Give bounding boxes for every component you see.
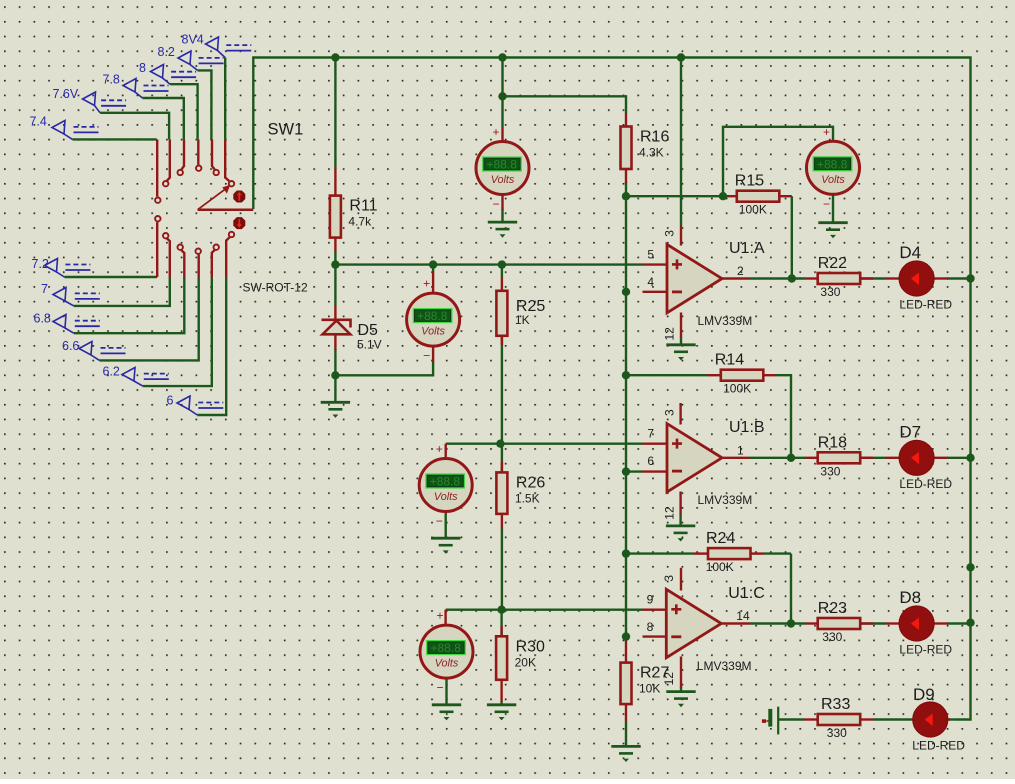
resistor R22: [818, 255, 861, 299]
wire: R16 bottom to ladder junction: [625, 182, 627, 196]
svg-text:+88.8: +88.8: [817, 157, 848, 171]
resistor R27: [621, 663, 670, 705]
svg-text:U1:B: U1:B: [729, 419, 765, 436]
wire: 8 run: [170, 84, 198, 139]
svg-text:R23: R23: [818, 600, 847, 617]
ground below D5/V2: [321, 402, 350, 418]
wire: 7.8 run: [143, 98, 184, 139]
LED D8 pins: [886, 622, 900, 624]
resistor R27 pins: [625, 637, 627, 663]
wire: U1:C out to D8: [750, 622, 806, 624]
svg-text:+: +: [823, 125, 830, 139]
wire: rail to R16 top elbow: [503, 96, 627, 113]
svg-text:6.2: 6.2: [103, 365, 120, 379]
resistor R24: [706, 530, 751, 574]
svg-text:Volts: Volts: [491, 174, 515, 186]
wire: ladder vertical rail x=626: [625, 196, 627, 636]
svg-text:7.4: 7.4: [30, 115, 47, 129]
svg-text:6.6: 6.6: [62, 339, 79, 353]
svg-text:U1:C: U1:C: [728, 585, 764, 602]
LED D7: [899, 423, 952, 491]
svg-text:330: 330: [820, 285, 840, 299]
wire: 6 run: [197, 277, 226, 415]
wire: 6.8 run: [74, 277, 185, 333]
wire: V4 + stub: [444, 610, 446, 624]
svg-text:+88.8: +88.8: [430, 475, 461, 489]
svg-text:100K: 100K: [723, 382, 751, 396]
voltmeter V4: [420, 609, 473, 695]
svg-text:D9: D9: [913, 685, 935, 704]
wire: U1:B pin12 to gnd: [679, 514, 681, 526]
resistor R30 pins: [500, 626, 502, 637]
resistor R16 pins: [625, 113, 627, 127]
svg-text:9: 9: [647, 592, 654, 606]
voltmeter pins V3: [445, 497, 447, 513]
op-amp U1:A pins: [643, 263, 668, 265]
svg-text:−: −: [423, 349, 430, 363]
svg-text:12: 12: [663, 327, 677, 341]
resistor R15 pins: [723, 195, 737, 197]
wire: U1:A out to D4: [750, 277, 806, 279]
svg-text:R18: R18: [818, 434, 847, 451]
svg-text:4.7k: 4.7k: [348, 215, 372, 229]
svg-text:D7: D7: [899, 423, 921, 442]
resistor R23: [818, 600, 861, 644]
svg-text:−: −: [437, 681, 444, 695]
wire: V2 - elbow to gnd junction: [335, 361, 433, 375]
zener diode D5: [322, 306, 382, 352]
svg-text:330: 330: [822, 630, 842, 644]
wire: R26 bottom down to R30 junction: [501, 528, 503, 610]
wire: 7.2 run: [64, 276, 157, 278]
resistor R11 pins: [334, 168, 336, 196]
svg-text:1.5K: 1.5K: [515, 491, 540, 505]
ground below U1:A: [666, 345, 695, 361]
svg-text:12: 12: [663, 506, 677, 520]
wire: battery to R33: [779, 718, 803, 720]
wire: V1 - to gnd: [501, 209, 503, 222]
svg-text:8: 8: [647, 620, 654, 634]
resistor R23 pins: [805, 622, 818, 624]
svg-text:+: +: [493, 125, 500, 139]
svg-text:6: 6: [647, 454, 654, 468]
terminal T6.6: [62, 339, 126, 360]
wire: VTR + elbow: [723, 127, 833, 196]
wire: D5 bottom to gnd junction: [334, 349, 336, 402]
voltmeter V1: [476, 125, 529, 211]
wire: 8V4 to contact column: [224, 58, 226, 140]
svg-text:330: 330: [827, 726, 847, 740]
svg-text:Volts: Volts: [421, 326, 445, 338]
SW1 contacts: [155, 166, 234, 254]
terminal T8V4: [182, 33, 252, 58]
svg-text:+: +: [437, 609, 444, 623]
resistor R14: [715, 352, 764, 396]
wire: D7 right to rail: [947, 457, 971, 459]
svg-text:SW-ROT-12: SW-ROT-12: [243, 281, 308, 295]
terminal T6: [167, 394, 224, 416]
voltmeter VTR: [807, 125, 860, 211]
svg-text:R33: R33: [821, 696, 850, 713]
LED D9 pins: [947, 718, 951, 720]
SW1 up button: [233, 191, 245, 203]
wire: right rail lower segment to D9: [956, 623, 971, 720]
svg-text:R16: R16: [640, 129, 669, 146]
resistor R33: [818, 696, 861, 740]
svg-text:3: 3: [663, 409, 677, 416]
ground below R30: [487, 705, 516, 721]
wire: V1 + drop from rail: [501, 58, 503, 128]
wire: D4 right to rail: [947, 277, 971, 279]
resistor R14 pins: [708, 374, 721, 376]
svg-text:R24: R24: [706, 530, 735, 547]
wire: R15 row horizontal: [626, 195, 723, 197]
wire: R24 right elbow green part: [763, 552, 791, 554]
wire: U1:B out to D7: [750, 457, 806, 459]
svg-text:7: 7: [41, 282, 48, 296]
wire: R25 bottom to junction: [501, 336, 503, 444]
svg-text:7.8: 7.8: [103, 73, 120, 87]
wire: 7.6V run: [100, 113, 169, 140]
wire: R14 left wire: [626, 374, 708, 376]
voltmeter pins V4: [445, 666, 447, 680]
resistor R18 pins: [805, 457, 818, 459]
voltmeter pins V2: [432, 272, 434, 293]
svg-text:−: −: [436, 514, 443, 528]
battery cell (reference): [762, 707, 778, 735]
ground below U1:C: [666, 692, 695, 708]
terminal T7.2: [32, 257, 91, 277]
LED D9: [912, 685, 965, 753]
svg-text:R14: R14: [715, 352, 744, 369]
voltmeter pins V1: [501, 127, 503, 142]
wire: R27 bottom to gnd: [625, 722, 627, 747]
svg-text:+88.8: +88.8: [431, 641, 462, 655]
svg-text:R22: R22: [818, 255, 847, 272]
resistor R18: [818, 434, 861, 478]
LED D4: [899, 243, 952, 311]
wire: R25 top stub: [501, 265, 503, 278]
svg-text:LED-RED: LED-RED: [899, 643, 952, 657]
svg-text:−: −: [493, 197, 500, 211]
svg-text:+88.8: +88.8: [487, 158, 518, 172]
svg-text:+88.8: +88.8: [417, 309, 448, 323]
svg-text:12: 12: [662, 672, 676, 686]
wire: U1:A pin3 drop from rail: [680, 58, 682, 227]
svg-text:Volts: Volts: [434, 491, 458, 503]
svg-text:LED-RED: LED-RED: [912, 739, 965, 753]
wire: R11 top from rail: [334, 58, 336, 169]
svg-text:SW1: SW1: [268, 121, 304, 139]
svg-text:R11: R11: [349, 198, 377, 215]
op-amp U1:A (LMV339M): [647, 230, 765, 341]
svg-text:R15: R15: [735, 173, 764, 190]
op-amp U1:C pins: [643, 609, 667, 611]
svg-text:2: 2: [737, 264, 744, 278]
wire: main node row y=264.6: [334, 251, 336, 264]
wire: pin9 row from V4: [446, 609, 643, 611]
ground below V4: [432, 705, 461, 721]
wire: 8.2 run: [198, 70, 212, 139]
svg-text:3: 3: [663, 230, 677, 237]
LED D7 pins: [886, 457, 900, 459]
terminal T8.2: [158, 45, 224, 70]
svg-text:LED-RED: LED-RED: [899, 298, 952, 312]
svg-text:−: −: [823, 197, 830, 211]
svg-text:D4: D4: [899, 243, 921, 262]
ground below U1:B: [666, 526, 695, 542]
ground below V3: [431, 538, 460, 554]
wire: 6.2 run: [143, 277, 212, 386]
ground below V1: [488, 222, 517, 238]
wire: R33 to D9: [874, 718, 913, 720]
wire: R24 left wire: [626, 552, 694, 554]
svg-text:7: 7: [647, 427, 654, 441]
terminal T8: [139, 61, 196, 84]
resistor R30: [496, 636, 545, 680]
wire: D8 right to rail: [947, 622, 971, 624]
voltmeter pins VTR: [832, 141, 834, 145]
wire: V2 + stub: [432, 265, 434, 272]
wire: R26 top: [501, 444, 503, 473]
svg-text:LMV339M: LMV339M: [697, 659, 752, 673]
svg-text:8.2: 8.2: [158, 45, 175, 59]
SW1 labels: [243, 121, 308, 295]
resistor R26: [496, 472, 545, 514]
wire: U1:A pin12 to gnd: [680, 337, 682, 345]
terminal T7.8: [103, 73, 169, 99]
terminal T6.2: [103, 365, 169, 387]
voltmeter V2: [407, 277, 460, 363]
voltmeter V3: [419, 442, 472, 528]
svg-text:14: 14: [736, 609, 750, 623]
resistor R16: [621, 127, 670, 170]
svg-text:+: +: [423, 277, 430, 291]
svg-text:5: 5: [647, 247, 654, 261]
terminal T7.6V: [53, 87, 127, 113]
resistor R26 pins: [501, 462, 503, 473]
op-amp U1:B (LMV339M): [647, 409, 764, 520]
svg-text:LMV339M: LMV339M: [698, 493, 753, 507]
svg-text:U1:A: U1:A: [729, 240, 765, 257]
wire: pin7 row from R25/R26 junction: [500, 443, 642, 445]
op-amp U1:C (LMV339M): [647, 575, 765, 686]
resistor R25 pins: [501, 278, 503, 292]
svg-text:6: 6: [167, 394, 174, 408]
wire: R30 bottom to gnd: [500, 702, 502, 705]
wire: V3 - to gnd: [445, 512, 447, 538]
SW1 down button: [233, 217, 245, 229]
svg-text:LMV339M: LMV339M: [698, 314, 753, 328]
svg-text:100K: 100K: [706, 560, 734, 574]
svg-text:R30: R30: [516, 638, 545, 655]
resistor R24 pins: [694, 552, 708, 554]
wire: 7 run: [74, 277, 170, 306]
resistor R33 pins: [803, 718, 818, 720]
wire: V3 + stub: [446, 443, 501, 445]
svg-text:8V4: 8V4: [182, 33, 204, 47]
op-amp U1:B pins: [643, 443, 668, 445]
wire: 6.6 run: [100, 277, 199, 360]
svg-text:+: +: [436, 442, 443, 456]
wire: D9 row green part: [948, 718, 956, 720]
wire: R14 right elbow to out row B: [763, 374, 776, 376]
LED D4 pins: [886, 277, 900, 279]
wire: D5 top from node: [334, 265, 336, 306]
wire: V4 - to gnd: [445, 679, 447, 705]
svg-text:3: 3: [662, 575, 676, 582]
svg-text:10K: 10K: [639, 682, 660, 696]
terminal T6.8: [34, 312, 100, 334]
resistor R22 pins: [805, 277, 818, 279]
svg-text:LED-RED: LED-RED: [899, 477, 952, 491]
svg-text:4.3K: 4.3K: [639, 146, 664, 160]
terminal T7: [41, 282, 100, 306]
svg-text:Volts: Volts: [821, 174, 845, 186]
wire: R15 right elbow down to out row A: [791, 196, 793, 278]
wire: U1:C pin12 to gnd: [680, 687, 682, 691]
LED D8: [899, 588, 952, 656]
svg-text:5.1V: 5.1V: [357, 338, 382, 352]
wire: 7.4 run: [73, 138, 157, 140]
wire: top rail: [253, 58, 970, 623]
svg-text:330: 330: [820, 464, 840, 478]
svg-text:100K: 100K: [739, 203, 767, 217]
resistor R25: [496, 291, 545, 336]
svg-text:1K: 1K: [515, 313, 530, 327]
rotary switch SW1 pins (red stubs): [157, 139, 229, 277]
resistor R11: [330, 196, 378, 238]
svg-text:20K: 20K: [515, 655, 536, 669]
svg-text:Volts: Volts: [435, 658, 459, 670]
svg-text:4: 4: [647, 275, 654, 289]
wire: U1:B pin6 stub: [626, 470, 643, 472]
ground below VTR: [818, 223, 847, 239]
svg-text:8: 8: [139, 61, 146, 75]
ground below R27: [611, 746, 640, 762]
svg-text:7.6V: 7.6V: [53, 87, 79, 101]
wire: R24 right elbow to out row C: [790, 554, 792, 624]
svg-text:1: 1: [737, 443, 744, 457]
svg-text:D8: D8: [899, 588, 921, 607]
terminal T7.4: [30, 115, 99, 140]
SW1 wiper arm: [198, 185, 254, 210]
svg-text:R26: R26: [516, 474, 545, 491]
wire: R30 top stub: [500, 610, 502, 637]
svg-text:D5: D5: [358, 322, 379, 339]
svg-text:6.8: 6.8: [34, 312, 51, 326]
wire: VTR - to gnd: [832, 195, 834, 223]
resistor R15: [735, 173, 780, 217]
